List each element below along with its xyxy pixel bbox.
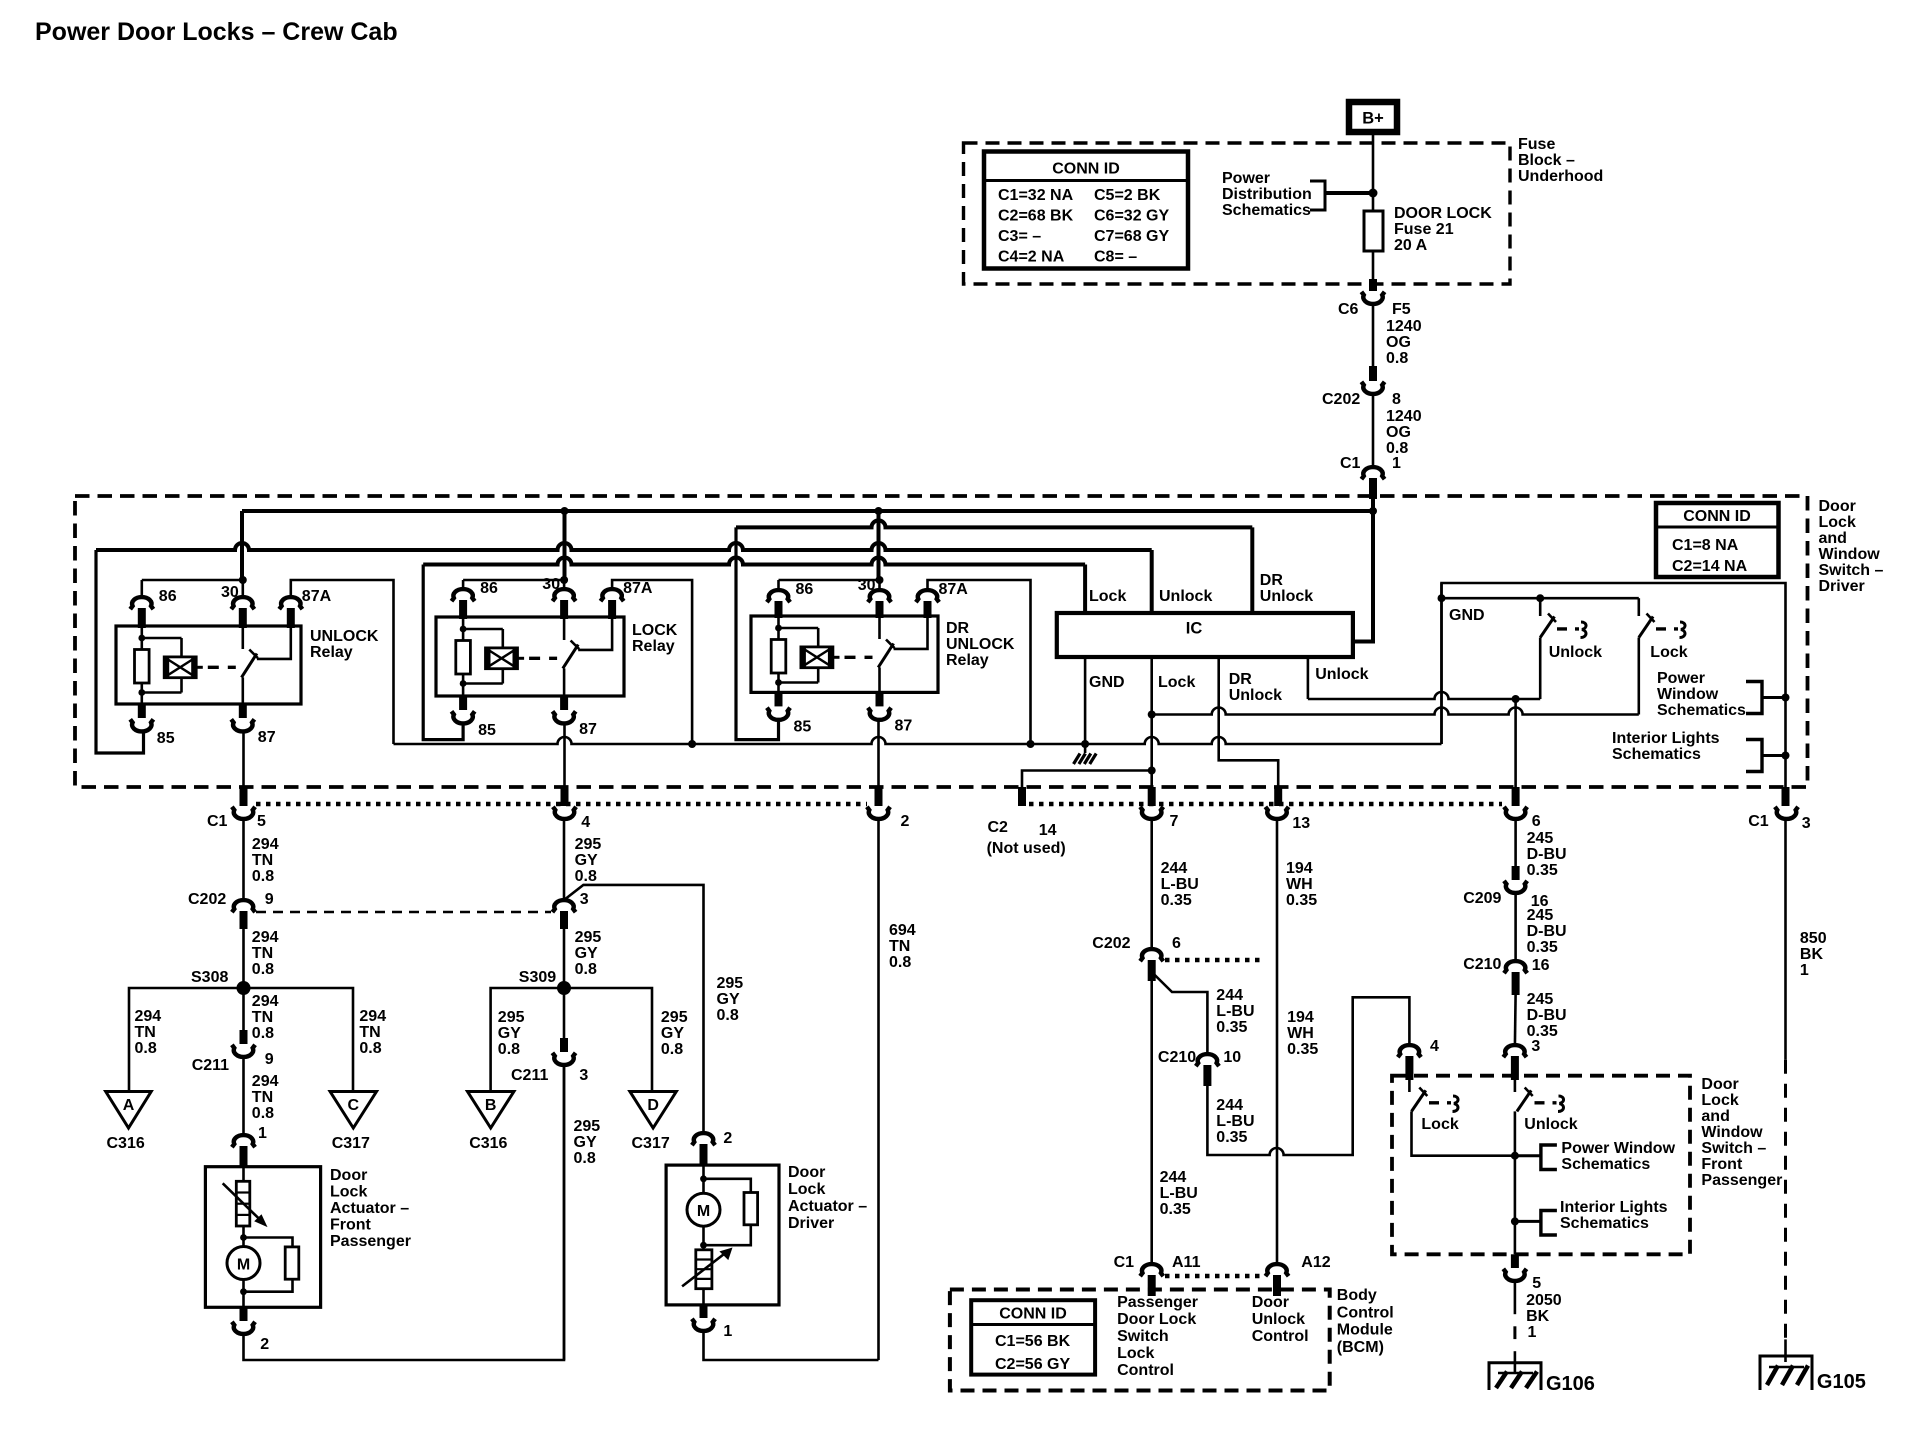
svg-text:C211: C211: [192, 1057, 229, 1074]
svg-text:(BCM): (BCM): [1337, 1339, 1384, 1356]
svg-text:TN: TN: [252, 1009, 273, 1026]
lock relay coil circuit wires: [462, 617, 465, 629]
IC pin Unlock (top) riser: [1150, 550, 1154, 613]
triangle D (to C317): [630, 1092, 676, 1129]
svg-text:Lock: Lock: [1701, 1092, 1738, 1109]
interior lights schematics tap (passenger): [1515, 1220, 1541, 1223]
driver actuator motor: [702, 1165, 705, 1179]
svg-text:C1=56 BK: C1=56 BK: [995, 1333, 1071, 1350]
svg-text:C202: C202: [1322, 391, 1360, 408]
svg-text:GND: GND: [1089, 674, 1125, 691]
svg-text:Front: Front: [1701, 1156, 1743, 1173]
svg-text:C6=32 GY: C6=32 GY: [1094, 208, 1169, 225]
svg-text:D-BU: D-BU: [1527, 1007, 1567, 1024]
driver actuator shunt resistor: [704, 1179, 751, 1193]
svg-text:Schematics: Schematics: [1612, 746, 1701, 763]
unlock relay terminal 87 inner lead: [242, 677, 245, 704]
svg-text:Lock: Lock: [1819, 514, 1856, 531]
svg-text:30: 30: [542, 576, 560, 593]
unlock relay terminal 86 riser: [141, 580, 144, 598]
svg-text:Power: Power: [1222, 170, 1270, 187]
svg-text:294: 294: [252, 929, 279, 946]
svg-text:295: 295: [575, 929, 602, 946]
svg-text:2050: 2050: [1526, 1292, 1562, 1309]
svg-text:Schematics: Schematics: [1560, 1215, 1649, 1232]
svg-text:87A: 87A: [302, 588, 332, 605]
fuse block - underhood boundary (dashed): [964, 143, 1511, 284]
svg-text:C2=14 NA: C2=14 NA: [1672, 558, 1748, 575]
door lock and window switch - driver boundary (dashed): [75, 496, 1808, 787]
svg-text:0.8: 0.8: [574, 1150, 596, 1167]
svg-text:C317: C317: [632, 1135, 670, 1152]
wire B+ drop to lock relay 30: [563, 511, 567, 580]
svg-text:Power Door Locks – Crew Cab: Power Door Locks – Crew Cab: [35, 18, 398, 46]
svg-text:B: B: [485, 1097, 497, 1114]
svg-text:GY: GY: [575, 945, 598, 962]
C202 dotted line (pins 6-7): [1165, 958, 1263, 963]
connector C211 pin 9: [240, 1030, 248, 1044]
lock relay node coil bottom: [460, 680, 467, 687]
connector C209 pin 16: [1512, 866, 1520, 880]
triangle C (to C317): [330, 1092, 376, 1129]
svg-text:Door: Door: [1252, 1294, 1289, 1311]
svg-text:DOOR LOCK: DOOR LOCK: [1394, 205, 1492, 222]
node actuator bottom: [240, 1288, 247, 1295]
lock relay terminal 87A connector: [601, 589, 624, 601]
svg-text:Door Lock: Door Lock: [1117, 1311, 1196, 1328]
svg-text:6: 6: [1172, 935, 1181, 952]
svg-text:1: 1: [723, 1323, 732, 1340]
svg-text:Unlock: Unlock: [1524, 1116, 1577, 1133]
svg-text:0.35: 0.35: [1216, 1129, 1247, 1146]
svg-text:Passenger: Passenger: [1701, 1172, 1782, 1189]
lock relay switch blade: [563, 645, 578, 669]
svg-text:0.8: 0.8: [717, 1007, 739, 1024]
svg-text:Relay: Relay: [632, 638, 675, 655]
svg-text:C5=2 BK: C5=2 BK: [1094, 187, 1161, 204]
svg-text:IC: IC: [1186, 620, 1203, 638]
IC pin Lock (bottom): [1150, 657, 1153, 787]
wire branch C202-6 to C210-10: [1152, 972, 1208, 1055]
svg-text:GND: GND: [1449, 607, 1485, 624]
unlock relay terminal 85 connector: [138, 704, 146, 718]
door lock and window switch front passenger boundary (dashed): [1392, 1076, 1690, 1255]
svg-text:Driver: Driver: [1819, 578, 1865, 595]
fuse 21 DOOR LOCK 20A: [1364, 211, 1383, 251]
ground bus (87A / GND): [394, 737, 1442, 744]
lock relay resistor: [456, 641, 471, 675]
svg-text:D-BU: D-BU: [1527, 923, 1567, 940]
svg-text:C4=2 NA: C4=2 NA: [998, 249, 1065, 266]
unlock relay terminal 30 connector: [231, 597, 254, 609]
svg-text:295: 295: [575, 836, 602, 853]
svg-text:Lock: Lock: [1650, 644, 1687, 661]
connector pin 6: [1512, 787, 1520, 806]
svg-text:Schematics: Schematics: [1657, 702, 1746, 719]
connector C202 pin 9: [232, 900, 255, 912]
unlock relay node coil bottom: [138, 689, 145, 696]
svg-text:9: 9: [265, 1051, 274, 1068]
svg-text:295: 295: [717, 975, 744, 992]
wire branch to driver actuator (jog): [564, 885, 704, 1134]
node H1 / passenger lock branch: [1512, 695, 1520, 703]
svg-text:0.8: 0.8: [252, 868, 274, 885]
node power distribution tap: [1369, 189, 1378, 198]
wire to C2 pin 14 (not used): [1022, 771, 1152, 788]
svg-text:Window: Window: [1819, 546, 1881, 563]
bus line B: unlock coil to IC: [96, 543, 1152, 550]
lock relay wire 87A to ground bus: [612, 580, 692, 744]
svg-text:and: and: [1701, 1108, 1729, 1125]
IC pin GND: [1084, 657, 1087, 744]
passenger actuator variable resistor: [242, 1167, 245, 1182]
svg-text:C2=68 BK: C2=68 BK: [998, 208, 1074, 225]
svg-text:87: 87: [579, 721, 597, 738]
svg-text:13: 13: [1292, 815, 1310, 832]
wire to driver actuator pin 1: [702, 1289, 705, 1305]
passenger actuator resistor arrow: [223, 1183, 262, 1221]
svg-text:G106: G106: [1546, 1373, 1595, 1395]
svg-text:C3= –: C3= –: [998, 228, 1041, 245]
svg-text:Lock: Lock: [1117, 1345, 1154, 1362]
unlock relay wire 87A to ground bus: [291, 580, 394, 744]
wire actuator to pin 2: [242, 1292, 245, 1308]
wire 1240 OG 0.8 (C202 to C1): [1372, 393, 1375, 468]
wire lock relay 85 to bus C: [423, 565, 463, 740]
svg-text:Schematics: Schematics: [1561, 1156, 1650, 1173]
svg-text:294: 294: [252, 993, 279, 1010]
svg-text:194: 194: [1287, 1009, 1314, 1026]
lock relay terminal 30 riser: [563, 580, 566, 590]
svg-text:CONN ID: CONN ID: [1683, 508, 1751, 525]
battery B+ terminal: [1349, 102, 1397, 132]
svg-text:Door: Door: [1701, 1076, 1738, 1093]
svg-text:Front: Front: [330, 1217, 372, 1234]
wire 245 D-BU (pin 3 down): [1514, 1080, 1517, 1092]
svg-text:Lock: Lock: [1158, 674, 1195, 691]
ground G105: [1760, 1356, 1812, 1390]
wire pin 6 from H1: [1514, 699, 1517, 787]
svg-text:2: 2: [901, 813, 910, 830]
wire H1: IC unlock to switches: [1308, 692, 1540, 699]
wire unlock relay 87 to C1 pin 5: [242, 733, 245, 787]
svg-text:A11: A11: [1172, 1254, 1201, 1271]
svg-text:Block –: Block –: [1518, 152, 1575, 169]
wire passenger lock switch to unlock column: [1412, 1111, 1515, 1155]
triangle B (to C316): [468, 1092, 514, 1129]
connector pin 7: [1148, 787, 1156, 806]
svg-text:3: 3: [1531, 1038, 1540, 1055]
svg-text:TN: TN: [359, 1024, 380, 1041]
svg-text:C1: C1: [1340, 455, 1361, 472]
svg-text:1: 1: [258, 1125, 267, 1142]
svg-text:0.35: 0.35: [1527, 939, 1558, 956]
svg-text:Unlock: Unlock: [1229, 687, 1282, 704]
IC box: [1057, 613, 1353, 657]
svg-text:C211: C211: [511, 1067, 548, 1084]
svg-text:Unlock: Unlock: [1549, 644, 1602, 661]
svg-text:2: 2: [260, 1336, 269, 1353]
svg-text:L-BU: L-BU: [1216, 1113, 1254, 1130]
svg-text:Relay: Relay: [946, 652, 989, 669]
connector driver actuator pin 2: [692, 1133, 715, 1145]
wire 245 D-BU 0.35 (C209 to C210): [1514, 892, 1517, 962]
wire 245 D-BU 0.35 (C210 to passenger pin 3): [1514, 995, 1517, 1046]
svg-text:TN: TN: [252, 945, 273, 962]
svg-text:D-BU: D-BU: [1527, 846, 1567, 863]
svg-text:0.8: 0.8: [135, 1040, 157, 1057]
dr unlock relay 86-30 top wire: [779, 579, 880, 582]
IC pin Unlock (bottom) to driver unlock switch: [1307, 657, 1310, 699]
connector C210 pin 10: [1196, 1054, 1219, 1066]
wire resistor to motor node: [242, 1226, 245, 1238]
svg-text:A: A: [123, 1097, 135, 1114]
node dr unlock relay 87A / ground bus: [1027, 740, 1035, 748]
svg-text:0.8: 0.8: [359, 1040, 381, 1057]
dr unlock relay coil circuit wires: [777, 616, 780, 628]
wire 2050 BK 1 (pin 5 to G106): [1514, 1280, 1517, 1314]
dr unlock relay terminal 87 connector: [876, 692, 884, 706]
IC pin Lock (top) riser: [1083, 565, 1087, 614]
svg-text:Actuator –: Actuator –: [330, 1200, 409, 1217]
C202 connector dashed line: [256, 911, 551, 914]
wire dr unlock relay 87 to pin 2: [877, 722, 880, 788]
node lock relay 87A / ground bus: [688, 740, 696, 748]
lock relay terminal 30 connector: [553, 589, 576, 601]
unlock relay node 30/86 junction: [239, 576, 247, 584]
wire 244 L-BU 0.35 (pin 7 to C202-6): [1150, 818, 1153, 950]
connector actuator pin 1: [232, 1135, 255, 1147]
svg-text:C2=56 GY: C2=56 GY: [995, 1356, 1070, 1373]
driver lock switch: [1638, 598, 1641, 616]
dr unlock relay 87A inner lead: [894, 616, 928, 649]
connector row dotted line (right): [1029, 802, 1502, 807]
svg-text:CONN ID: CONN ID: [999, 1306, 1067, 1323]
svg-text:85: 85: [794, 718, 812, 735]
body control module boundary (dashed): [950, 1290, 1330, 1391]
svg-text:0.8: 0.8: [575, 868, 597, 885]
svg-text:Unlock: Unlock: [1159, 588, 1212, 605]
svg-text:M: M: [237, 1257, 250, 1274]
svg-text:2: 2: [723, 1130, 732, 1147]
svg-text:85: 85: [157, 730, 175, 747]
svg-text:0.8: 0.8: [252, 1105, 274, 1122]
svg-text:30: 30: [858, 577, 876, 594]
svg-text:and: and: [1819, 530, 1847, 547]
dr unlock relay switch blade: [878, 644, 893, 668]
svg-text:DR: DR: [946, 620, 970, 637]
svg-text:CONN ID: CONN ID: [1052, 161, 1120, 178]
svg-text:4: 4: [1430, 1038, 1439, 1055]
svg-text:5: 5: [1532, 1275, 1541, 1292]
unlock relay body box: [116, 626, 301, 704]
wire 295 GY 0.8 (pin4 to C202-3): [563, 818, 566, 898]
wire passenger switch common: [1514, 1111, 1517, 1254]
unlock relay terminal 30 riser: [242, 580, 245, 598]
svg-text:87A: 87A: [623, 580, 653, 597]
wire fuse to C6: [1372, 251, 1375, 279]
svg-text:14: 14: [1039, 822, 1057, 839]
unlock relay node coil top: [138, 635, 145, 642]
connector C6 pin F5: [1369, 279, 1377, 291]
door lock actuator front passenger box: [205, 1167, 320, 1308]
svg-text:Driver: Driver: [788, 1215, 834, 1232]
svg-text:C202: C202: [1092, 935, 1130, 952]
svg-text:Lock: Lock: [1421, 1116, 1458, 1133]
svg-text:GY: GY: [575, 852, 598, 869]
svg-text:294: 294: [135, 1008, 162, 1025]
svg-text:294: 294: [252, 836, 279, 853]
svg-text:C209: C209: [1463, 890, 1501, 907]
node GND branch: [1438, 594, 1446, 602]
driver unlock switch: [1539, 598, 1542, 616]
CONN ID table (fuse block): [984, 152, 1188, 269]
lock relay node 30/86 junction: [560, 576, 568, 584]
svg-text:GY: GY: [717, 991, 740, 1008]
BCM dotted line (A11-A12): [1165, 1274, 1263, 1279]
wire C1 into driver switch module: [1371, 499, 1375, 511]
node IC GND / ground bus: [1081, 740, 1089, 748]
connector actuator pin 2: [240, 1307, 248, 1321]
svg-text:3: 3: [580, 891, 589, 908]
ground G106: [1489, 1363, 1541, 1390]
svg-text:Interior Lights: Interior Lights: [1560, 1199, 1668, 1216]
svg-text:C1: C1: [1748, 813, 1769, 830]
svg-text:8: 8: [1392, 391, 1401, 408]
wire 194 WH 0.35 (pin 13 to BCM A12): [1276, 818, 1279, 1265]
dr unlock relay terminal 87A connector: [916, 590, 939, 602]
svg-text:C316: C316: [107, 1135, 145, 1152]
svg-text:Distribution: Distribution: [1222, 186, 1312, 203]
svg-text:L-BU: L-BU: [1160, 1185, 1198, 1202]
dr unlock relay terminal 30 inner lead: [878, 616, 881, 639]
IC pin DR Unlock (top) riser: [1250, 527, 1254, 613]
svg-text:0.8: 0.8: [889, 954, 911, 971]
svg-text:0.35: 0.35: [1527, 1023, 1558, 1040]
svg-text:244: 244: [1160, 1169, 1187, 1186]
svg-text:C: C: [348, 1097, 360, 1114]
svg-text:0.8: 0.8: [498, 1041, 520, 1058]
wire 1240 OG 0.8 (F5 to C202): [1372, 303, 1375, 366]
dr unlock relay terminal 30 riser: [878, 580, 881, 591]
dr unlock relay body box: [751, 616, 938, 692]
svg-text:Passenger: Passenger: [1117, 1294, 1198, 1311]
wire 294 TN 0.8 (S308 to C211-9): [242, 988, 245, 1030]
node bus A / relay 3 drop: [875, 507, 883, 515]
bus line D: dr unlock coil to IC: [736, 520, 1252, 527]
svg-text:244: 244: [1161, 860, 1188, 877]
svg-text:L-BU: L-BU: [1161, 876, 1199, 893]
svg-text:LOCK: LOCK: [632, 622, 678, 639]
dr unlock relay terminal 86 connector: [767, 590, 790, 602]
svg-text:86: 86: [480, 580, 498, 597]
svg-text:244: 244: [1216, 987, 1243, 1004]
svg-text:3: 3: [1802, 815, 1811, 832]
svg-text:244: 244: [1216, 1097, 1243, 1114]
svg-text:TN: TN: [889, 938, 910, 955]
dr unlock relay armature link (dashed): [833, 656, 840, 659]
svg-text:TN: TN: [135, 1024, 156, 1041]
lock relay terminal 86 riser: [462, 580, 465, 590]
unlock relay switch blade: [242, 654, 257, 678]
svg-text:TN: TN: [252, 1089, 273, 1106]
splice S309: [557, 981, 571, 995]
svg-text:WH: WH: [1286, 876, 1313, 893]
wire ground bus to driver switch GND: [1440, 583, 1443, 744]
passenger unlock switch: [1517, 1090, 1531, 1111]
node driver actuator top: [700, 1175, 707, 1182]
wire S309 to triangle B: [491, 988, 564, 1092]
unlock relay terminal 87A connector: [279, 597, 302, 609]
node H2 / IC lock: [1148, 711, 1156, 719]
lock relay terminal 30 inner lead: [563, 617, 566, 640]
wire 850 BK 1 (C1 pin 3 to G105): [1784, 818, 1787, 1060]
node pin14 branch: [1148, 767, 1156, 775]
connector BCM A12: [1265, 1264, 1288, 1276]
unlock relay 87A inner lead: [257, 626, 291, 659]
wire driver unlock switch to H1: [1539, 638, 1542, 700]
svg-text:Fuse 21: Fuse 21: [1394, 221, 1454, 238]
connector pin 4: [561, 787, 569, 806]
svg-text:0.8: 0.8: [575, 961, 597, 978]
svg-text:L-BU: L-BU: [1216, 1003, 1254, 1020]
svg-text:Control: Control: [1117, 1362, 1174, 1379]
unlock relay terminal 30 inner lead: [242, 626, 245, 649]
node bus A / C1 feed: [1369, 507, 1377, 515]
svg-text:D: D: [647, 1097, 659, 1114]
lock relay terminal 87 connector: [560, 696, 568, 710]
connector row dotted line (left): [256, 802, 867, 807]
node interior lights tap: [1782, 752, 1790, 760]
svg-text:C317: C317: [332, 1135, 370, 1152]
svg-text:1: 1: [1392, 455, 1401, 472]
svg-text:1240: 1240: [1386, 408, 1422, 425]
dr unlock relay node 30/86 junction: [876, 576, 884, 584]
svg-text:Unlock: Unlock: [1252, 1311, 1305, 1328]
svg-text:87: 87: [895, 717, 913, 734]
CONN ID table (BCM): [971, 1300, 1095, 1374]
svg-text:Module: Module: [1337, 1322, 1393, 1339]
svg-text:295: 295: [498, 1009, 525, 1026]
dr unlock relay node coil top: [775, 625, 782, 632]
svg-text:0.35: 0.35: [1286, 892, 1317, 909]
connector C1 pin 1 (driver switch input): [1361, 467, 1384, 479]
lock relay terminal 87 inner lead: [563, 668, 566, 696]
driver actuator variable resistor: [696, 1250, 712, 1289]
wire B+ to fuse: [1372, 132, 1375, 211]
driver switch module outline / GND wire: [1442, 583, 1786, 787]
unlock relay terminal 86 connector: [130, 597, 153, 609]
wire unlock relay 85 to bus B: [96, 550, 144, 753]
svg-text:194: 194: [1286, 860, 1313, 877]
svg-text:Control: Control: [1252, 1328, 1309, 1345]
dr unlock relay terminal 87 inner lead: [878, 667, 881, 692]
wire dr unlock relay 85 to bus D: [736, 527, 779, 739]
svg-text:Lock: Lock: [1089, 588, 1126, 605]
wire 294 TN 0.8 (C211 to actuator pin 1): [242, 1056, 245, 1136]
passenger actuator motor: [242, 1238, 245, 1247]
svg-text:87: 87: [258, 729, 276, 746]
wire B+ feed to IC: [1353, 511, 1373, 642]
svg-text:86: 86: [159, 588, 177, 605]
door lock actuator driver box: [666, 1165, 779, 1305]
connector C202 pin 3: [552, 900, 575, 912]
lock relay armature link (dashed): [518, 657, 525, 660]
dr unlock relay node coil bottom: [775, 679, 782, 686]
svg-text:Door: Door: [788, 1164, 825, 1181]
svg-text:Window: Window: [1701, 1124, 1763, 1141]
node actuator top: [240, 1234, 247, 1241]
